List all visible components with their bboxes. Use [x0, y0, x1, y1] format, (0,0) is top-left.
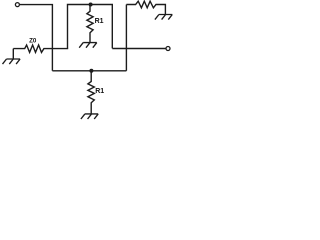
svg-text:R1: R1	[95, 88, 104, 95]
svg-text:R1: R1	[95, 18, 104, 25]
svg-text:Z0: Z0	[29, 38, 37, 45]
